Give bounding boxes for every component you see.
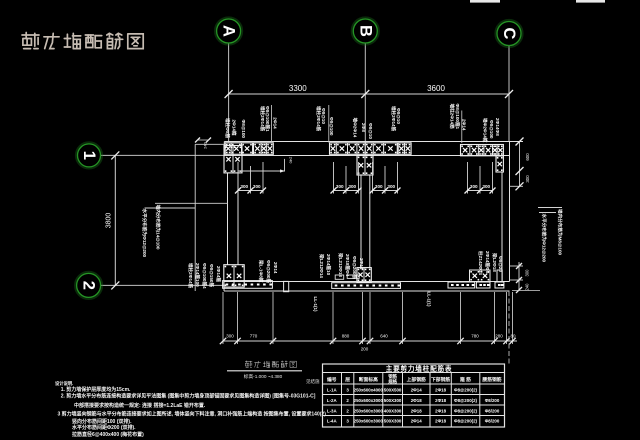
svg-text:2: 2 xyxy=(80,281,98,290)
right wall top corner column xyxy=(496,156,503,172)
svg-text:Φ8@10: Φ8@10 xyxy=(396,108,401,124)
svg-text:2Φ14: 2Φ14 xyxy=(359,258,364,270)
axis bubble B xyxy=(352,18,378,44)
top edge white bar 1 xyxy=(470,0,500,3)
svg-text:240: 240 xyxy=(525,283,530,291)
bottom wall band outline xyxy=(224,281,510,283)
svg-text:2Φ18: 2Φ18 xyxy=(435,388,446,393)
middle wall double line xyxy=(360,175,362,268)
svg-text:2Φ18: 2Φ18 xyxy=(411,398,422,403)
svg-text:Φ8@100: Φ8@100 xyxy=(329,117,334,136)
svg-text:1: 1 xyxy=(80,151,98,160)
top band column group 5 (axis C) xyxy=(461,145,504,156)
svg-text:2Φ14箍: 2Φ14箍 xyxy=(215,266,222,282)
svg-text:780: 780 xyxy=(471,334,479,339)
svg-text:Φ8@200筋: Φ8@200筋 xyxy=(265,260,272,283)
svg-text:2Φ14箍: 2Φ14箍 xyxy=(230,120,237,136)
left wall bottom column xyxy=(224,265,244,287)
svg-text:2Φ14箍100: 2Φ14箍100 xyxy=(194,263,201,287)
svg-text:Φ8@200(2): Φ8@200(2) xyxy=(454,398,478,403)
interior 240 dim near left wall xyxy=(284,159,286,172)
bottom band small block xyxy=(284,281,289,291)
top band column group 3 (axis B) xyxy=(330,143,398,155)
svg-text:300: 300 xyxy=(525,175,530,183)
svg-text:B: B xyxy=(356,25,374,37)
svg-text:梁L212Φ14: 梁L212Φ14 xyxy=(318,253,325,278)
svg-text:墙Φ2Φ14箍: 墙Φ2Φ14箍 xyxy=(482,118,489,143)
svg-text:300: 300 xyxy=(226,334,234,339)
svg-text:墙内分布筋为M8@100: 墙内分布筋为M8@100 xyxy=(557,209,564,256)
axis C grid line xyxy=(508,46,510,142)
svg-text:L-2A: L-2A xyxy=(327,398,338,403)
svg-text:编号: 编号 xyxy=(327,376,337,383)
svg-text:640: 640 xyxy=(380,334,388,339)
axis 1 grid line xyxy=(101,154,228,156)
svg-text:水平分布筋为Φ12@200: 水平分布筋为Φ12@200 xyxy=(141,209,148,258)
room2 bottom right columns xyxy=(470,270,491,282)
svg-text:墙柱2Φ14筋: 墙柱2Φ14筋 xyxy=(449,104,456,130)
svg-text:墙柱Φ8筋: 墙柱Φ8筋 xyxy=(224,118,231,139)
right wall line continues to table xyxy=(508,291,510,364)
svg-text:250x600x3000: 250x600x3000 xyxy=(354,419,384,424)
svg-text:200: 200 xyxy=(361,347,369,352)
left wall stub line xyxy=(195,143,224,145)
svg-text:3300: 3300 xyxy=(289,84,307,93)
svg-text:水平分布筋为Φ12@200: 水平分布筋为Φ12@200 xyxy=(541,214,548,263)
svg-text:2Φ14: 2Φ14 xyxy=(411,388,422,393)
svg-text:300: 300 xyxy=(375,184,383,189)
top dimension line 3300/3600 xyxy=(229,93,509,95)
svg-text:2Φ14: 2Φ14 xyxy=(273,117,278,129)
svg-text:腰筋钢筋: 腰筋钢筋 xyxy=(481,376,501,383)
bottom band marks above middle xyxy=(335,275,344,279)
svg-text:2Φ14Φ8: 2Φ14Φ8 xyxy=(495,118,500,136)
svg-text:400X300: 400X300 xyxy=(384,408,402,413)
top wall band outline xyxy=(224,142,523,156)
axis 2 grid line xyxy=(101,284,224,286)
svg-text:箍 筋: 箍 筋 xyxy=(460,376,471,383)
svg-text:Φ8@10: Φ8@10 xyxy=(368,123,373,139)
bottom title underline xyxy=(227,370,302,372)
svg-text:C: C xyxy=(500,28,518,40)
svg-text:L-1A: L-1A xyxy=(327,388,338,393)
svg-text:梁L212Φ18: 梁L212Φ18 xyxy=(337,252,344,277)
svg-text:Φ8@10: Φ8@10 xyxy=(321,108,326,124)
axis A grid line xyxy=(228,43,230,142)
svg-text:断面标高: 断面标高 xyxy=(359,376,378,383)
drawing main title 剪力墙配筋图 (stroke-drawn) xyxy=(22,33,143,49)
svg-text:L-4A: L-4A xyxy=(327,419,338,424)
svg-text:Φ8@200筋: Φ8@200筋 xyxy=(351,256,358,279)
right top dim 600/300 xyxy=(519,142,521,187)
svg-text:300: 300 xyxy=(240,184,248,189)
svg-text:Φ8@20: Φ8@20 xyxy=(498,256,503,272)
svg-text:770: 770 xyxy=(250,334,258,339)
left wall note leader lines xyxy=(155,202,228,204)
bottom band block group 2 xyxy=(332,283,401,289)
interior dim 300-300 middle wall right xyxy=(372,162,374,194)
right wall note leader lines xyxy=(538,207,562,209)
top band column group 1 xyxy=(225,143,252,155)
svg-text:2Φ14: 2Φ14 xyxy=(411,419,422,424)
svg-text:见结施: 见结施 xyxy=(306,378,320,385)
axis B grid line xyxy=(364,43,366,156)
svg-text:500X500: 500X500 xyxy=(384,388,402,393)
svg-text:中部搭接要求按构造统一规定: 连接 搭接=1.2LaE 错开: 中部搭接要求按构造统一规定: 连接 搭接=1.2LaE 错开布置. xyxy=(74,402,206,409)
svg-text:300: 300 xyxy=(336,184,344,189)
svg-text:250x600x3000: 250x600x3000 xyxy=(354,408,384,413)
top edge white bar 2 xyxy=(576,0,605,3)
bottom band block group 3 xyxy=(448,282,475,288)
interior dim 300-300 middle wall left xyxy=(333,162,335,194)
middle wall bottom column xyxy=(357,268,371,282)
svg-text:上部钢筋: 上部钢筋 xyxy=(407,376,426,383)
left wall top column xyxy=(224,146,242,173)
axis bubble 2 xyxy=(75,272,101,298)
svg-text:水平分布筋间距Φ200 (双排).: 水平分布筋间距Φ200 (双排). xyxy=(71,424,136,431)
axis bubble A xyxy=(215,18,241,44)
svg-text:墙柱2Φ14筋: 墙柱2Φ14筋 xyxy=(187,263,194,289)
svg-text:Φ8@200(2): Φ8@200(2) xyxy=(454,419,478,424)
svg-text:2Φ18: 2Φ18 xyxy=(411,408,422,413)
interior dim 300-300 room1 left xyxy=(237,162,239,194)
left vertical extension line xyxy=(194,144,196,291)
axis bubble C xyxy=(496,20,522,46)
svg-text:3 剪力墙竖向钢筋与水平分布筋连接要求如上图所述, 墙体竖向: 3 剪力墙竖向钢筋与水平分布筋连接要求如上图所述, 墙体竖向下料注意, 洞口补强… xyxy=(58,411,327,418)
svg-text:2Φ18: 2Φ18 xyxy=(435,398,446,403)
svg-text:880: 880 xyxy=(342,334,350,339)
svg-text:A: A xyxy=(220,25,238,37)
svg-text:2Φ18: 2Φ18 xyxy=(435,408,446,413)
svg-text:L-3A: L-3A xyxy=(327,408,338,413)
svg-text:Φ8@100箍4: Φ8@100箍4 xyxy=(201,263,208,289)
svg-text:280: 280 xyxy=(495,334,503,339)
middle wall top column xyxy=(357,156,373,176)
svg-text:2Φ14箍10: 2Φ14箍10 xyxy=(325,254,332,276)
svg-text:Φ8@100: Φ8@100 xyxy=(489,120,494,139)
svg-text:LL-1(1): LL-1(1) xyxy=(427,292,432,308)
svg-text:墙内分布筋为14@100: 墙内分布筋为14@100 xyxy=(155,205,162,250)
svg-text:Φ8@200(2): Φ8@200(2) xyxy=(454,388,478,393)
bottom band block group 1 xyxy=(223,281,273,289)
svg-text:梁L2Φ18: 梁L2Φ18 xyxy=(491,252,498,272)
svg-text:2. 剪力墙水平分布筋连接构造要求详见平法图集 (图集中剪力: 2. 剪力墙水平分布筋连接构造要求详见平法图集 (图集中剪力墙身顶部锚固要求见图… xyxy=(61,393,316,400)
bottom title 剪力墙配筋图 (stroke-drawn small) xyxy=(245,361,297,368)
svg-text:规格: 规格 xyxy=(388,378,397,385)
svg-text:300: 300 xyxy=(525,269,530,277)
bottom dimension line xyxy=(223,340,517,342)
svg-text:300: 300 xyxy=(387,184,395,189)
svg-text:标高-1.000 ~4.380: 标高-1.000 ~4.380 xyxy=(244,373,283,380)
svg-text:柱Z142Φ14: 柱Z142Φ14 xyxy=(477,251,484,275)
svg-text:Φ8/200: Φ8/200 xyxy=(485,398,500,403)
svg-text:Φ8@150筋: Φ8@150筋 xyxy=(208,264,215,287)
svg-text:墙柱2Φ14筋: 墙柱2Φ14筋 xyxy=(259,106,266,132)
bottom dimension extension lines xyxy=(222,292,224,344)
left dimension line 3800 xyxy=(114,155,116,285)
svg-text:Φ8@100: Φ8@100 xyxy=(241,120,246,139)
svg-text:1. 剪力墙保护层厚度均为15cm.: 1. 剪力墙保护层厚度均为15cm. xyxy=(61,386,131,393)
svg-text:Φ8/200: Φ8/200 xyxy=(485,408,500,413)
svg-text:2Φ14箍Φ8: 2Φ14箍Φ8 xyxy=(484,251,491,274)
svg-text:2Φ14: 2Φ14 xyxy=(273,262,278,274)
svg-text:Φ8@100箍1: Φ8@100箍1 xyxy=(264,106,271,132)
svg-text:Φ8@100箍1: Φ8@100箍1 xyxy=(454,104,461,130)
svg-text:300: 300 xyxy=(470,184,478,189)
svg-text:3600: 3600 xyxy=(427,84,445,93)
svg-text:300: 300 xyxy=(482,184,490,189)
svg-text:墙柱2Φ14筋: 墙柱2Φ14筋 xyxy=(315,106,322,132)
svg-text:500X300: 500X300 xyxy=(384,398,402,403)
svg-text:3800: 3800 xyxy=(106,213,113,229)
svg-text:80: 80 xyxy=(510,334,516,339)
svg-text:300: 300 xyxy=(253,184,261,189)
top band column group 4 xyxy=(398,143,411,155)
interior dim 300-300 right wall xyxy=(467,162,469,194)
svg-text:LL-1(1): LL-1(1) xyxy=(313,297,318,313)
top band column group 2 xyxy=(254,143,274,155)
left wall double line xyxy=(227,173,229,265)
svg-text:主要剪力墙柱配筋表: 主要剪力墙柱配筋表 xyxy=(386,364,453,373)
svg-text:500X300: 500X300 xyxy=(384,419,402,424)
axis bubble 1 xyxy=(76,143,101,168)
svg-text:2Φ18箍Φ4: 2Φ18箍Φ4 xyxy=(344,254,351,277)
svg-text:2Φ8: 2Φ8 xyxy=(361,123,366,132)
right wall double line xyxy=(501,172,503,282)
svg-text:墙Φ2Φ14: 墙Φ2Φ14 xyxy=(352,118,359,138)
svg-text:600: 600 xyxy=(525,153,530,161)
svg-text:下部钢筋: 下部钢筋 xyxy=(431,376,450,383)
svg-text:竖向分布筋间距100 (双排).: 竖向分布筋间距100 (双排). xyxy=(72,418,132,425)
svg-text:Φ8@200(2): Φ8@200(2) xyxy=(454,408,478,413)
svg-text:250x600x4000: 250x600x4000 xyxy=(354,388,384,393)
svg-text:梁L-1Φ8箍: 梁L-1Φ8箍 xyxy=(258,259,265,283)
right bottom dim 300/240 xyxy=(518,262,520,291)
schedule table grid xyxy=(323,364,505,427)
svg-text:层: 层 xyxy=(345,376,350,383)
svg-text:300: 300 xyxy=(348,184,356,189)
svg-text:250x600x3000: 250x600x3000 xyxy=(354,398,384,403)
svg-text:拉筋直径6@400x400 (梅花布置): 拉筋直径6@400x400 (梅花布置) xyxy=(72,431,144,438)
svg-text:Φ8/200: Φ8/200 xyxy=(485,419,500,424)
svg-text:240: 240 xyxy=(289,157,294,164)
svg-text:2Φ18: 2Φ18 xyxy=(435,419,446,424)
svg-text:2Φ14: 2Φ14 xyxy=(462,119,467,131)
